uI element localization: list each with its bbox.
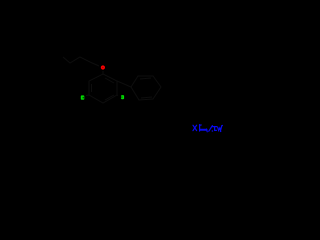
X (193, 125, 197, 130)
wire: alkyl chain zigzag upper-left (63, 57, 99, 66)
atom O (red) (101, 65, 105, 69)
bond to right Cl (117, 94, 118, 97)
node O-to-ring bond (102, 71, 104, 74)
atom Cl right (green) (121, 95, 124, 99)
glyph T/J (212, 127, 216, 131)
atom Cl left (green) (81, 95, 85, 99)
glyph2 vertical + bowl (200, 125, 202, 131)
wire: connector to right ring (117, 81, 131, 87)
slash (209, 126, 213, 132)
glyph W/y (218, 125, 223, 131)
center benzene ring (89, 74, 117, 103)
ring inner double bonds (105, 78, 114, 83)
bond to left Cl (86, 94, 89, 97)
watermark blue text bottom-right (193, 125, 222, 132)
right benzene ring (131, 76, 161, 100)
